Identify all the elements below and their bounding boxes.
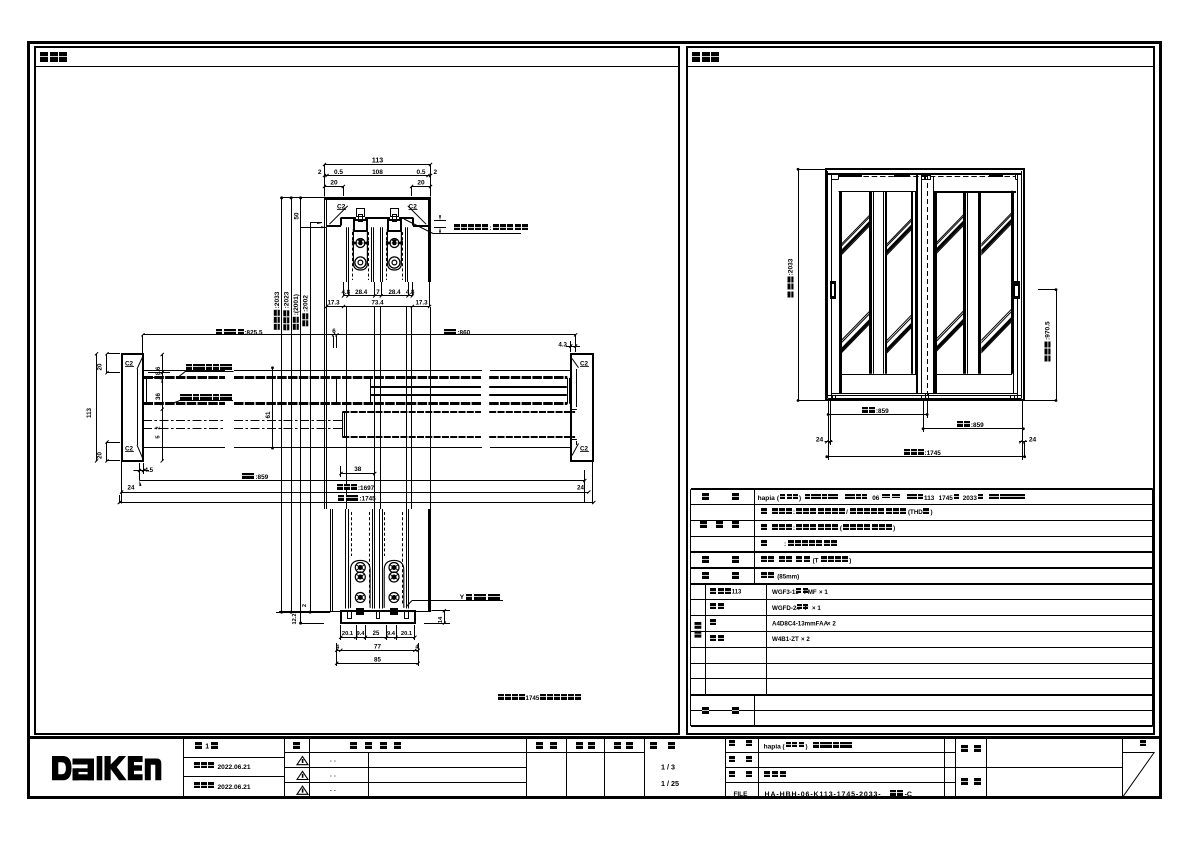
rev triangles column — [285, 752, 527, 754]
svg-text:7: 7 — [376, 289, 380, 296]
svg-text:24: 24 — [128, 485, 135, 492]
right jamb plan section — [571, 354, 593, 461]
dim 38 meeting overlap — [341, 473, 375, 475]
height dim line 2033 frame-outside — [281, 198, 283, 612]
door bottom line and sill — [831, 393, 1018, 395]
svg-text:14: 14 — [438, 616, 444, 623]
door top sections hanging in rail — [346, 227, 348, 282]
svg-text::2023: :2023 — [283, 291, 290, 308]
svg-text:): ) — [799, 495, 801, 502]
frame opening verticals — [831, 174, 833, 399]
front door plan: faces (thick notched lines) — [144, 376, 226, 379]
bottom dims row2 4 77 4 — [337, 650, 419, 652]
upper rail dim 20 left — [325, 186, 344, 188]
upper rail top plate — [324, 197, 431, 200]
connector lines to rail — [282, 197, 325, 199]
svg-text:0.5: 0.5 — [334, 169, 343, 176]
jamb dim 113 overall — [96, 354, 98, 461]
svg-text:12.2: 12.2 — [292, 614, 298, 625]
svg-text:hapia: hapia — [764, 743, 782, 750]
Y-rail leader note (Y rail: aluminum) — [412, 600, 503, 602]
svg-text:hapia: hapia — [758, 495, 776, 502]
svg-text:20: 20 — [97, 363, 104, 370]
frame inner edge lines — [827, 171, 829, 398]
svg-text::1745: :1745 — [359, 496, 376, 503]
svg-text:· ·: · · — [330, 758, 336, 765]
svg-text:9.4: 9.4 — [356, 631, 365, 637]
upper rail dim 20 right — [412, 186, 431, 188]
elevation outer frame — [826, 169, 1024, 400]
center hanger brackets — [922, 176, 925, 180]
svg-text:WGFD-24: WGFD-24 — [772, 605, 800, 612]
svg-text:1745: 1745 — [939, 495, 954, 502]
svg-text:20.1: 20.1 — [401, 631, 413, 637]
right door slab edges — [933, 176, 935, 393]
spec table column dividers — [754, 489, 756, 584]
hanger rail leader note (tsurisha rail: resin molding) — [404, 219, 433, 234]
Y-rail base plate — [341, 611, 415, 623]
svg-text:× 1: × 1 — [819, 589, 828, 596]
svg-text::1697: :1697 — [358, 485, 375, 492]
hinban vertical label — [695, 622, 702, 629]
svg-text::: : — [793, 509, 795, 516]
svg-text:WGF3-13: WGF3-13 — [772, 589, 799, 596]
svg-text:2033: 2033 — [963, 495, 978, 502]
left door handle — [830, 281, 836, 299]
svg-text:× 2: × 2 — [827, 620, 836, 627]
hanger position marks — [838, 175, 862, 177]
jamb dim 20 bottom — [106, 442, 108, 461]
svg-text:113: 113 — [732, 590, 742, 596]
plan bottom dim door width 859 — [140, 480, 585, 482]
svg-text:FMF: FMF — [804, 589, 817, 596]
spec row: handle (hatte) — [702, 556, 709, 563]
plan bottom dim name width 1697 — [122, 492, 589, 494]
head corner notches — [838, 174, 840, 180]
height dim line 2023 inside — [291, 198, 293, 612]
right panel (front view) box — [687, 47, 1154, 734]
svg-text:113: 113 — [372, 158, 383, 165]
right door handle — [1014, 281, 1020, 299]
svg-text:38: 38 — [354, 466, 362, 473]
title block verticals — [183, 737, 185, 797]
svg-text:28.4: 28.4 — [388, 289, 401, 296]
svg-text:): ) — [849, 557, 851, 564]
svg-text:50: 50 — [294, 212, 301, 219]
rail lip mini dim — [434, 220, 446, 222]
left door slab edges — [839, 191, 842, 393]
svg-text:): ) — [931, 509, 933, 516]
svg-text:4.8: 4.8 — [341, 289, 350, 296]
svg-text::(2001): :(2001) — [293, 294, 300, 315]
svg-text:108: 108 — [372, 169, 383, 176]
svg-text::825.5: :825.5 — [244, 329, 263, 336]
approve/check/make headers — [536, 742, 543, 749]
dim 61 between door faces — [272, 368, 274, 448]
rotated height labels — [274, 291, 281, 330]
meeting note leader (shiawase) — [186, 364, 192, 370]
svg-text:× 1: × 1 — [812, 605, 821, 612]
svg-text:24: 24 — [577, 485, 584, 492]
floor guide assembly at x=394.0 — [384, 560, 404, 608]
svg-text:2: 2 — [434, 169, 438, 176]
biko (remarks) label — [702, 707, 709, 714]
svg-text::860: :860 — [457, 329, 470, 336]
svg-text:Y: Y — [460, 594, 465, 601]
elevation bottom dim door width 859 right — [923, 428, 1023, 430]
bottom detail wall lines — [330, 509, 332, 612]
scale cell — [650, 742, 657, 749]
svg-text:9.4: 9.4 — [387, 631, 396, 637]
svg-text:× 2: × 2 — [801, 636, 810, 643]
svg-text:85: 85 — [374, 656, 381, 663]
svg-text::2033: :2033 — [788, 258, 795, 275]
svg-text:F: F — [805, 605, 809, 612]
svg-text::: : — [784, 541, 786, 548]
page cell — [1123, 752, 1155, 754]
svg-text:4.8: 4.8 — [406, 289, 415, 296]
spec table grid — [691, 488, 1153, 490]
plan bottom dim frame width 1745 — [119, 502, 594, 504]
svg-text:73.4: 73.4 — [371, 300, 384, 307]
svg-text:A4D8C4-13mmFAA: A4D8C4-13mmFAA — [772, 620, 829, 627]
svg-text::859: :859 — [255, 474, 268, 481]
spec rows: finish (shiage) — [700, 521, 707, 528]
svg-text::970.5: :970.5 — [1045, 321, 1052, 340]
svg-text:2: 2 — [302, 604, 308, 607]
svg-text:2: 2 — [318, 169, 322, 176]
upper rail chamfer C2 right — [408, 206, 426, 224]
svg-text:(T: (T — [813, 557, 819, 564]
upper rail chamfer C2 left — [329, 206, 347, 224]
upper rail channel profile — [327, 225, 341, 227]
upper rail left wall — [324, 198, 326, 307]
plan bottom dim 4.5 — [139, 463, 141, 481]
note: dims shown for 1745 width — [498, 694, 504, 700]
rev history header and dots — [350, 742, 357, 749]
door cap note leader — [180, 394, 186, 400]
svg-text:): ) — [806, 743, 808, 750]
svg-text::859: :859 — [876, 408, 889, 415]
front door end caps — [143, 378, 145, 404]
project name cell — [956, 767, 1123, 769]
svg-text:77: 77 — [374, 643, 381, 650]
dims 17.3 73.4 17.3 — [327, 306, 430, 308]
svg-text:113: 113 — [86, 407, 93, 418]
svg-text:1 / 25: 1 / 25 — [661, 779, 679, 788]
svg-text:): ) — [893, 525, 895, 532]
svg-text:25: 25 — [373, 631, 380, 637]
left jamb plan section — [122, 354, 143, 461]
center meeting stiles — [916, 175, 918, 394]
svg-text:(THD: (THD — [908, 509, 923, 516]
right door glass area — [934, 192, 1012, 375]
svg-text:0.5: 0.5 — [416, 169, 425, 176]
left panel (section view) box — [35, 47, 679, 734]
svg-text:17.3: 17.3 — [327, 300, 340, 307]
svg-text:17.3: 17.3 — [415, 300, 428, 307]
dim 14 rail height — [444, 611, 446, 623]
section view title (dan-men-zu) — [40, 52, 48, 62]
height dim line door 2001 — [300, 198, 302, 623]
svg-text::2033: :2033 — [274, 291, 281, 308]
svg-text:24: 24 — [816, 437, 824, 444]
name rows — [726, 752, 956, 754]
extension lines from rail to dims — [326, 227, 328, 306]
door top line — [839, 191, 917, 193]
svg-text::: : — [793, 525, 795, 532]
left door glass area — [841, 192, 916, 375]
svg-text:20: 20 — [97, 452, 104, 459]
spec row: model (yoshiki) — [702, 493, 709, 500]
front view title (sho-men-zu) — [692, 52, 700, 62]
opening tunnel lines — [143, 370, 225, 372]
bottom dims row1 20.1 9.4 25 9.4 20.1 — [341, 637, 415, 639]
extension verticals between details — [324, 307, 326, 509]
dims 4.8 28.4 7 28.4 4.8 — [344, 295, 413, 297]
right jamb door pocket — [571, 409, 577, 411]
svg-text:20.1: 20.1 — [342, 631, 354, 637]
svg-text:(85mm): (85mm) — [777, 573, 799, 580]
svg-text:1 / 3: 1 / 3 — [661, 763, 675, 772]
svg-text:61: 61 — [265, 411, 272, 418]
jamb dim 20 top — [106, 354, 108, 373]
svg-text:36: 36 — [155, 393, 162, 400]
svg-text:20: 20 — [330, 180, 338, 187]
hanger roller unit at x=360.4 — [357, 209, 365, 217]
elevation dim frame-outside height 2033 — [798, 169, 800, 400]
svg-text:W4B1-ZT: W4B1-ZT — [772, 636, 799, 643]
upper rail dim 113 — [325, 164, 431, 166]
svg-text::: : — [490, 225, 492, 232]
bottom detail door panels — [345, 509, 347, 609]
rear door plan: faces (notched) — [342, 411, 481, 413]
right panel header line — [687, 66, 1155, 68]
svg-text:4.3: 4.3 — [558, 342, 567, 349]
elevation bottom dim frame width 1745 — [827, 456, 1025, 458]
spec row: packing — [702, 572, 709, 579]
elevation bottom dim door width 859 left — [828, 414, 927, 416]
rear door end caps — [342, 412, 344, 437]
svg-text:4.5: 4.5 — [145, 467, 154, 474]
plan top dim line: effective opening 825.5 / 6 / door width 860 — [143, 334, 576, 336]
svg-text:6: 6 — [332, 328, 336, 335]
DAIKEN logo — [52, 756, 161, 780]
svg-text:28.4: 28.4 — [355, 289, 368, 296]
svg-text:/: / — [846, 509, 848, 516]
svg-text:-C: -C — [905, 791, 912, 798]
svg-text:24: 24 — [1029, 437, 1037, 444]
upper rail right wall (section cut) — [428, 198, 431, 282]
svg-text:8.6: 8.6 — [156, 366, 162, 375]
svg-text:113: 113 — [924, 495, 935, 502]
svg-text:06: 06 — [872, 495, 880, 502]
left door center stile — [869, 192, 872, 374]
svg-text:1: 1 — [205, 744, 209, 751]
floor guide assembly at x=360.3 — [351, 560, 371, 608]
bottom guide feet — [833, 396, 836, 399]
svg-text:HA-HBH-06-K113-1745-2033-: HA-HBH-06-K113-1745-2033- — [765, 791, 882, 798]
svg-text:2: 2 — [156, 426, 162, 429]
front door core lines — [371, 386, 482, 388]
svg-text:2022.06.21: 2022.06.21 — [218, 764, 251, 771]
floor lines — [279, 611, 341, 613]
hanger roller unit at x=394.4 — [391, 209, 399, 217]
stacked small dims at x=162 (8.6 / 36 / 2 / 5) — [162, 354, 164, 461]
left panel header line — [35, 66, 679, 68]
small left dims at floor — [290, 611, 293, 614]
elevation extension lines — [828, 401, 830, 460]
bottom dims row3 85 — [337, 663, 419, 665]
upper rail dim row 2-0.5-108-0.5-2 — [325, 175, 431, 177]
svg-text:FILE: FILE — [734, 791, 749, 798]
rev table first-edition column — [184, 757, 285, 759]
svg-text:20: 20 — [417, 180, 425, 187]
elevation dim handle height 970.5 — [1056, 290, 1058, 401]
title block top border — [30, 736, 1160, 739]
svg-text:· ·: · · — [330, 773, 336, 780]
svg-text::2002: :2002 — [302, 295, 309, 312]
svg-text:2022.06.21: 2022.06.21 — [218, 784, 251, 791]
svg-text:1745: 1745 — [526, 695, 540, 702]
hinban rows — [710, 588, 716, 594]
svg-text:· ·: · · — [330, 788, 336, 795]
svg-text::1745: :1745 — [925, 450, 942, 457]
frame head thick line — [828, 173, 1022, 175]
right door center stile — [963, 192, 966, 374]
hidden top rail dashed line — [839, 176, 1017, 178]
svg-text::859: :859 — [971, 422, 984, 429]
height dim line 2002 — [310, 223, 312, 612]
rail center chain lines — [143, 420, 225, 422]
meeting stile divider — [336, 379, 338, 404]
